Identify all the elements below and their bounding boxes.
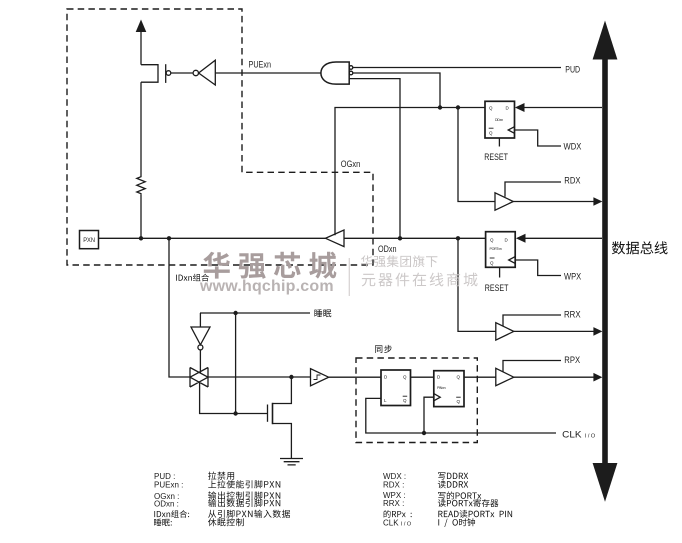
node gate line junction bbox=[233, 411, 237, 415]
wire sleep to nmos gate vertical bbox=[235, 313, 237, 414]
node PORTxn Q junction bbox=[456, 236, 460, 240]
transistor M1 gate bar bbox=[165, 64, 167, 83]
svg-text:RESET: RESET bbox=[484, 152, 508, 163]
node DDxn Q junction 2 bbox=[456, 105, 460, 109]
svg-text:D: D bbox=[506, 106, 510, 111]
tristate buffer U4 OGxn bbox=[326, 230, 345, 247]
wire clk path bbox=[366, 398, 556, 433]
data bus top arrow bbox=[593, 21, 618, 60]
wire and input3 to PORTxn Q bbox=[349, 79, 400, 239]
svg-text:D: D bbox=[505, 238, 509, 243]
svg-text:L: L bbox=[384, 398, 387, 403]
svg-text:PXN: PXN bbox=[83, 237, 95, 244]
svg-text:Q: Q bbox=[457, 375, 461, 380]
node DDxn Q junction 1 bbox=[438, 105, 442, 109]
wire RESET stub U2 bbox=[498, 138, 500, 147]
transmission gate Q3 bowtie bbox=[190, 368, 208, 388]
transistor Q2 source path bbox=[273, 424, 292, 459]
wire DDxn Q to RDX buffer bbox=[458, 108, 495, 202]
flip-flop U2 DDxn box bbox=[485, 101, 515, 138]
arrow RPX to bus bbox=[593, 373, 602, 382]
schmitt trigger U8 bbox=[311, 369, 329, 386]
wire DDxn D from bus bbox=[524, 107, 602, 109]
schmitt hysteresis mark bbox=[314, 375, 321, 380]
dashed pull-up region box bbox=[67, 9, 373, 265]
wire inverter to gate top bbox=[199, 350, 201, 373]
flip-flop U10 box bbox=[434, 371, 464, 407]
svg-text:RPX: RPX bbox=[564, 355, 580, 365]
arrow into DDxn D bbox=[515, 103, 525, 112]
node and input3 junction bbox=[398, 236, 402, 240]
inverter U1 triangle bbox=[199, 60, 216, 85]
and gate input bubble 2 bbox=[349, 71, 353, 75]
transistor M1 gate bubble bbox=[166, 71, 171, 76]
label bus bbox=[612, 241, 668, 254]
wire WDX bbox=[515, 130, 561, 146]
ground GND bbox=[280, 459, 303, 465]
svg-text:D: D bbox=[384, 375, 388, 380]
svg-text:Q: Q bbox=[403, 398, 407, 403]
wire schmitt out to sync bbox=[329, 376, 381, 378]
label wmC bbox=[361, 255, 438, 267]
svg-text:CLK: CLK bbox=[562, 429, 581, 439]
transistor Q2 NMOS drain path bbox=[273, 377, 292, 404]
wire sleep label line bbox=[200, 312, 310, 314]
wire DDxn Q line bbox=[335, 108, 485, 236]
label lv1 bbox=[208, 472, 234, 480]
label ll5 bbox=[154, 510, 189, 518]
label rv5 bbox=[438, 510, 512, 518]
label tb bbox=[375, 345, 392, 353]
latch U9 box bbox=[381, 370, 411, 406]
wire RESET stub U5 bbox=[499, 267, 501, 277]
svg-text:www.hqchip.com: www.hqchip.com bbox=[199, 278, 334, 295]
svg-text:D: D bbox=[437, 375, 441, 380]
wire clk to ff clock bbox=[424, 397, 434, 433]
wire RRX buffer to bus bbox=[514, 330, 594, 332]
svg-text:Q: Q bbox=[490, 261, 494, 266]
svg-text:PUD: PUD bbox=[565, 65, 580, 75]
wire and input2 to DDxn Q bbox=[353, 73, 440, 108]
svg-text:CLK I / O: CLK I / O bbox=[383, 518, 412, 527]
wire pin line bbox=[99, 237, 326, 239]
wire PORTxn Q line bbox=[344, 237, 486, 239]
wire gate bottom down bbox=[200, 382, 268, 414]
buffer U11 RPX bbox=[496, 368, 514, 385]
svg-text:Q: Q bbox=[489, 106, 493, 111]
label wmA bbox=[203, 252, 336, 279]
label lv4 bbox=[208, 499, 280, 507]
inverter U1 bubble bbox=[193, 70, 198, 75]
node IDxn junction bbox=[167, 236, 171, 240]
wire RRX enable bbox=[503, 315, 561, 326]
resistor R1 bbox=[137, 176, 145, 195]
wire input line to schmitt bbox=[208, 376, 311, 378]
wire WPX bbox=[515, 260, 561, 276]
svg-text:OGxn: OGxn bbox=[341, 159, 361, 169]
label rv4 bbox=[438, 499, 499, 507]
pin box PXN bbox=[80, 231, 99, 249]
svg-text:Q: Q bbox=[457, 399, 461, 404]
label rv1 bbox=[438, 472, 468, 479]
label rl5 bbox=[384, 510, 412, 518]
flip-flop U10 Qbar overbar bbox=[456, 396, 461, 398]
svg-text:PUExn: PUExn bbox=[249, 60, 272, 70]
transistor M1 PMOS source bar bbox=[141, 65, 158, 83]
wire RPX enable bbox=[503, 361, 561, 372]
and gate input bubble 1 bbox=[349, 66, 353, 70]
wire resistor to pin line bbox=[140, 195, 142, 238]
wire PMOS drain down to resistor bbox=[140, 82, 142, 175]
flip-flop U5 PORTxn box bbox=[486, 232, 516, 268]
node resistor junction bbox=[139, 236, 143, 240]
data bus line bbox=[602, 58, 608, 465]
label idx bbox=[176, 274, 209, 282]
label rv6 bbox=[438, 518, 475, 527]
svg-text:Q: Q bbox=[490, 238, 494, 243]
svg-text:WDX: WDX bbox=[564, 142, 582, 152]
wire PORTxn D from bus bbox=[525, 237, 602, 239]
wire sleep to inverter bbox=[199, 313, 201, 327]
buffer U3 RDX bbox=[495, 193, 513, 210]
svg-text:RRX: RRX bbox=[564, 309, 581, 319]
svg-text:RDX :: RDX : bbox=[383, 481, 404, 490]
label lv2 bbox=[208, 480, 280, 488]
svg-text:ODxn :: ODxn : bbox=[154, 499, 179, 508]
svg-text:Q: Q bbox=[489, 131, 493, 136]
transistor Q2 channel bar bbox=[272, 403, 274, 424]
svg-text:RRX :: RRX : bbox=[383, 499, 404, 508]
buffer U6 RRX bbox=[496, 323, 514, 340]
wire VCC vertical bbox=[140, 31, 142, 65]
wire RPX buffer to bus bbox=[514, 376, 594, 378]
wire PUD bbox=[353, 67, 561, 69]
flip-flop U2 Qbar overbar bbox=[489, 127, 494, 129]
label lv3 bbox=[208, 491, 280, 499]
svg-text:RDX: RDX bbox=[564, 176, 580, 186]
svg-text:WPX: WPX bbox=[564, 272, 581, 282]
flip-flop U2 clock notch bbox=[508, 127, 515, 134]
wire PORTxn Q to RRX buffer bbox=[458, 238, 496, 331]
node clk junction bbox=[422, 431, 426, 435]
wire gate to inverter bbox=[171, 72, 193, 74]
and gate G1 bbox=[321, 62, 349, 84]
arrow RDX to bus bbox=[593, 197, 602, 206]
svg-text:PORTxn: PORTxn bbox=[490, 247, 502, 251]
wire ff to rpx buffer bbox=[464, 376, 496, 378]
arrow into PORTxn D bbox=[516, 234, 526, 243]
transistor Q2 gate bar bbox=[267, 405, 269, 422]
svg-text:DDxn: DDxn bbox=[495, 118, 503, 122]
watermark divider bbox=[348, 258, 350, 296]
svg-text:RESET: RESET bbox=[485, 283, 509, 294]
label sm bbox=[314, 309, 331, 317]
wire PUExn bbox=[215, 72, 321, 74]
node nmos drain junction bbox=[289, 375, 293, 379]
label wmD bbox=[362, 273, 478, 287]
label rv2 bbox=[438, 480, 468, 488]
label lv5 bbox=[208, 510, 290, 518]
label lv6 bbox=[208, 518, 244, 526]
node sleep junction bbox=[233, 311, 237, 315]
svg-text:I / O: I / O bbox=[585, 433, 596, 439]
wire RDX enable bbox=[505, 182, 561, 197]
wire latch to ff bbox=[411, 376, 434, 378]
sync dashed box bbox=[356, 358, 477, 443]
label ll6 bbox=[154, 519, 172, 527]
latch U9 Qbar overbar bbox=[403, 395, 408, 397]
inverter U7 sleep triangle bbox=[191, 327, 210, 345]
inverter U7 bubble bbox=[198, 345, 203, 350]
svg-text:PUExn :: PUExn : bbox=[154, 481, 183, 490]
data bus bottom arrow bbox=[593, 463, 618, 502]
svg-text:ODxn: ODxn bbox=[378, 244, 397, 254]
svg-text:Q: Q bbox=[403, 375, 407, 380]
svg-text:PINxn: PINxn bbox=[437, 386, 446, 390]
arrow RRX to bus bbox=[593, 327, 602, 336]
flip-flop U10 clock triangle bbox=[434, 394, 440, 401]
wire IDxn branch down bbox=[169, 238, 190, 377]
flip-flop U5 Qbar overbar bbox=[490, 257, 495, 259]
flip-flop U5 clock notch bbox=[509, 257, 516, 264]
VCC arrow bbox=[136, 20, 147, 33]
wire RDX buffer to bus bbox=[513, 201, 594, 203]
label rv3 bbox=[438, 492, 481, 500]
